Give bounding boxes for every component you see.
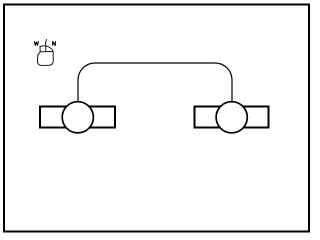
- compass body: [37, 51, 53, 65]
- lamp L1 holder: [40, 107, 115, 128]
- compass dial arc: [40, 46, 53, 52]
- lamp L1 bulb: [62, 102, 93, 133]
- compass needle: [45, 39, 48, 51]
- lamp L2 holder: [195, 107, 269, 128]
- compass icon: [34, 39, 55, 65]
- wire: [78, 63, 232, 102]
- compass label W: [34, 42, 38, 46]
- compass dial left edge: [39, 46, 41, 51]
- lamp L2 bulb: [216, 102, 247, 133]
- compass label N: [53, 42, 56, 46]
